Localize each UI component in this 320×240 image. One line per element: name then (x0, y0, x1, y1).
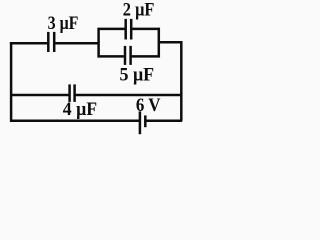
capacitor C3 5 uF right plate (129, 46, 132, 65)
capacitor C2 2 uF right plate (130, 19, 133, 40)
svg-text:3 μF: 3 μF (48, 13, 79, 34)
svg-text:2 μF: 2 μF (123, 0, 155, 20)
wire right edge of outer loop (180, 41, 183, 121)
battery B1 short plate (144, 115, 147, 127)
battery B1 long plate (139, 111, 142, 134)
svg-text:5 μF: 5 μF (120, 64, 155, 85)
wire box top edge left part (98, 28, 125, 31)
wire middle branch left segment (10, 94, 70, 97)
svg-text:4 μF: 4 μF (63, 99, 97, 120)
wire from box to right edge (159, 41, 183, 44)
wire box bottom edge left part (98, 55, 124, 58)
wire from C1 to parallel box (54, 42, 99, 45)
wire parallel box right edge (158, 28, 161, 58)
capacitor C3 5 uF left plate (124, 46, 127, 65)
wire middle branch right segment (75, 94, 182, 97)
wire left edge of outer loop (10, 42, 13, 121)
capacitor C2 2 uF left plate (124, 19, 127, 40)
wire box bottom edge right part (131, 55, 160, 58)
capacitor C4 4 uF left plate (68, 84, 71, 102)
capacitor C1 3 uF left plate (47, 32, 50, 52)
wire box top edge right part (131, 28, 160, 31)
capacitor C1 3 uF right plate (53, 32, 56, 52)
wire bottom right segment (145, 120, 182, 123)
capacitor C4 4 uF right plate (73, 84, 76, 102)
wire bottom left segment (10, 120, 140, 123)
wire top left segment (10, 42, 48, 45)
svg-text:6 V: 6 V (136, 95, 161, 116)
wire parallel box left edge (97, 28, 100, 58)
